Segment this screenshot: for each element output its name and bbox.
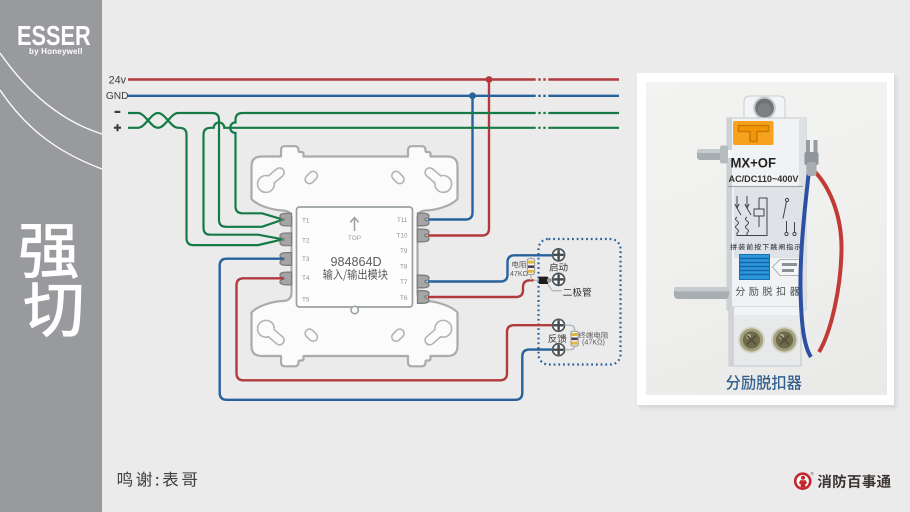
feedback label bbox=[548, 334, 566, 343]
svg-text:AC/DC110~400V: AC/DC110~400V bbox=[729, 174, 800, 185]
resistor 47K (EOL for start) wire stubs bbox=[531, 256, 539, 280]
reset arrow label bbox=[773, 260, 800, 276]
start label bbox=[549, 263, 567, 272]
TOP arrow bbox=[350, 218, 358, 232]
sidebar arc 1 bbox=[0, 53, 102, 134]
keyhole bottom-right bbox=[425, 320, 452, 344]
terminal clip T11 bbox=[418, 213, 430, 226]
terminal clip T7 bbox=[418, 275, 430, 288]
wire GND to T11 (blue) bbox=[428, 96, 473, 220]
junction GND bus bbox=[469, 92, 476, 99]
red wire on device bbox=[811, 168, 842, 352]
node plus label bbox=[114, 124, 121, 131]
module terminal box 984864D bbox=[297, 207, 413, 307]
wire T6 to diode (red) bbox=[428, 280, 534, 297]
LED bump at module bottom bbox=[351, 306, 358, 313]
module backplate bbox=[252, 146, 458, 366]
wire T3 to feedback terminal (blue) bbox=[220, 259, 553, 400]
left pin upper bbox=[697, 146, 728, 164]
keyhole top-left bbox=[258, 168, 285, 192]
terminal screw left bbox=[738, 327, 765, 354]
terminal resistor loop wire bbox=[565, 325, 575, 349]
slot top-left bbox=[303, 170, 319, 186]
slot bottom-right bbox=[390, 327, 406, 343]
caption 分励脱扣器 bbox=[726, 375, 801, 390]
terminal clip T2 bbox=[280, 233, 292, 246]
node minus label bbox=[115, 111, 121, 113]
terminal clip T4 bbox=[280, 272, 292, 285]
terminal clip T3 bbox=[280, 253, 292, 266]
wire plus bus continuing (hop over vertical) bbox=[204, 123, 620, 240]
screw terminal start + bbox=[553, 249, 565, 261]
credit text 鸣谢:表哥 bbox=[118, 472, 197, 487]
printed caution text bbox=[730, 244, 800, 251]
terminal clip T6 bbox=[418, 291, 430, 304]
slot top-right bbox=[390, 170, 406, 186]
keyhole bottom-left bbox=[258, 320, 285, 344]
dashed control box bbox=[539, 239, 621, 365]
resistor 47K body bbox=[527, 259, 534, 275]
blue wire on device bbox=[800, 162, 811, 357]
wire 24v to T10 (red) bbox=[428, 80, 489, 236]
left pin lower bbox=[674, 287, 729, 299]
sidebar arc 2 bbox=[0, 90, 102, 169]
wire T7 to start terminal (blue) bbox=[428, 255, 553, 281]
module name label bbox=[323, 269, 388, 281]
wire 24v bus (red) bbox=[128, 78, 619, 80]
wire minus incoming twisted pair bbox=[128, 113, 283, 227]
printed device name bbox=[736, 286, 800, 296]
pin labels left T1-T5 bbox=[302, 217, 310, 303]
terminal screw right bbox=[771, 327, 798, 354]
terminal resistor label bbox=[578, 332, 608, 339]
slot bottom-left bbox=[303, 327, 319, 343]
orange T label bbox=[727, 121, 774, 158]
pin labels right T11-T6 bbox=[396, 217, 407, 302]
terminal clip T1 bbox=[280, 213, 292, 226]
resistor label bbox=[512, 261, 526, 268]
wire plus incoming twisted pair bbox=[128, 113, 283, 245]
device main body bbox=[727, 118, 806, 310]
device top tab bbox=[744, 96, 785, 120]
diode label bbox=[563, 288, 591, 297]
keyhole top-right bbox=[425, 168, 452, 192]
screw terminal feedback - bbox=[553, 344, 565, 356]
printed schematic on device bbox=[735, 196, 796, 236]
diode callout line bbox=[548, 284, 563, 291]
junction 24v bus bbox=[486, 76, 493, 83]
blue actuator bbox=[740, 255, 770, 280]
wire break marks on buses bbox=[537, 75, 547, 132]
terminal resistor body bbox=[571, 331, 578, 346]
brand logo icon bbox=[792, 470, 822, 500]
terminal block bottom bbox=[729, 307, 801, 366]
vertical title 强 bbox=[20, 224, 78, 279]
diode D1 bbox=[539, 277, 553, 284]
svg-text:MX+OF: MX+OF bbox=[731, 154, 777, 170]
wire minus bus continuing (hop over plus) bbox=[230, 113, 619, 220]
sidebar bbox=[0, 0, 102, 512]
vertical title 切 bbox=[24, 282, 81, 337]
screw terminal start - bbox=[553, 273, 565, 285]
photo card bbox=[637, 73, 894, 405]
terminal clip T10 bbox=[418, 229, 430, 242]
screw terminal feedback + bbox=[553, 319, 565, 331]
wire GND bus (blue) bbox=[128, 95, 619, 97]
wire T4 to feedback terminal (red) bbox=[237, 278, 553, 380]
fork terminal lug bbox=[805, 140, 819, 176]
